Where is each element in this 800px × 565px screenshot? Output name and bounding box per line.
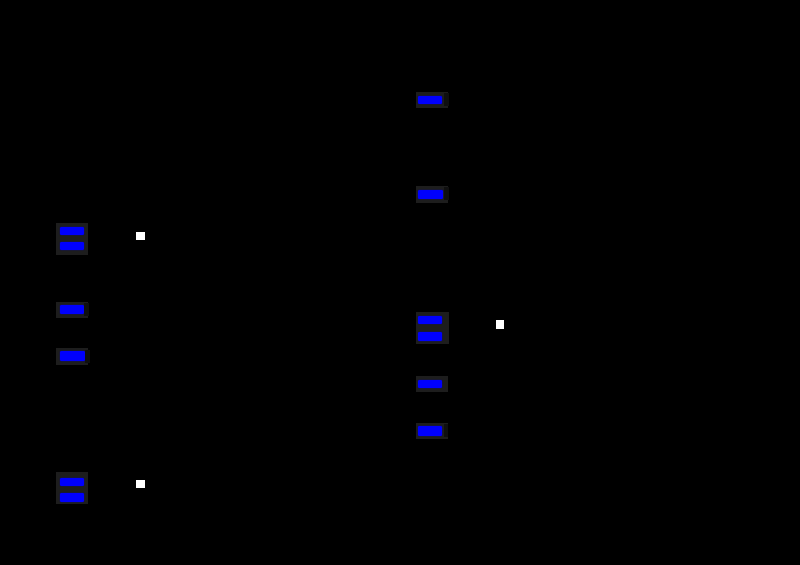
node terminal square S2 bbox=[496, 320, 504, 328]
transistor Q3 label line 2 bbox=[60, 493, 84, 503]
unit remnant after C1 label bbox=[444, 93, 449, 106]
unit remnant after R4 label bbox=[444, 424, 449, 437]
transistor Q2 label line 1 bbox=[418, 316, 442, 324]
capacitor C2 value label 100n bbox=[418, 380, 442, 388]
resistor R3 value label 1M bbox=[60, 351, 85, 361]
transistor Q2 label box bbox=[416, 312, 450, 344]
transistor Q2 label line 2 bbox=[418, 332, 442, 341]
resistor R1 value label box bbox=[416, 186, 448, 202]
node terminal square S3 bbox=[136, 480, 144, 488]
transistor Q1 label line 2 bbox=[60, 242, 85, 251]
resistor R4 value label box bbox=[416, 423, 448, 439]
capacitor C1 value label 100n bbox=[418, 96, 442, 104]
resistor R2 value label 470k bbox=[60, 305, 84, 314]
capacitor C1 value label box bbox=[416, 92, 448, 108]
resistor R3 value label box bbox=[56, 348, 88, 364]
unit remnant after R1 label bbox=[444, 187, 449, 200]
resistor R2 value label box bbox=[56, 302, 88, 318]
capacitor C2 value label box bbox=[416, 376, 448, 392]
transistor Q1 label box bbox=[56, 223, 88, 255]
transistor Q3 label line 1 bbox=[60, 478, 85, 486]
unit remnant after R2 label bbox=[84, 303, 89, 316]
node terminal square S1 bbox=[136, 232, 144, 240]
resistor R1 value label 2M bbox=[418, 190, 443, 199]
resistor R4 value label 2M bbox=[418, 426, 442, 435]
transistor Q1 label line 1 bbox=[60, 227, 85, 235]
transistor Q3 label box bbox=[56, 472, 88, 504]
unit remnant after R3 label bbox=[85, 350, 90, 363]
